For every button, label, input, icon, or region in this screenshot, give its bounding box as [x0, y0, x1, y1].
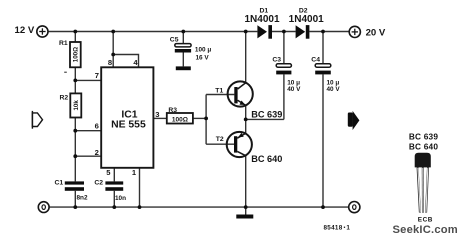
wire C3 top lead from D1/D2 node — [283, 32, 285, 64]
wire bottom rail (0V) — [49, 206, 349, 208]
wire C4 bottom lead to ground rail — [322, 74, 324, 207]
node C5/rail — [181, 30, 185, 34]
wire pin 2 — [75, 155, 101, 157]
output arrow (solid) — [348, 111, 360, 130]
wire R2 bottom lead down to C1 — [74, 118, 76, 182]
node R1/rail — [73, 30, 77, 34]
capacitor C2 — [94, 180, 126, 202]
wire R1 top lead — [74, 32, 76, 43]
node pin2 — [73, 154, 77, 158]
svg-text:40 V: 40 V — [287, 86, 301, 93]
input arrow (open) — [32, 111, 42, 129]
svg-text:R3: R3 — [168, 107, 177, 114]
wire emitter node to C3 — [246, 118, 284, 120]
svg-text:2: 2 — [95, 148, 99, 157]
transistor Q1 : T1 BC639 NPN — [215, 81, 282, 119]
lead E — [418, 167, 420, 212]
svg-text:1: 1 — [346, 224, 350, 231]
node pin4/pin8 joint — [111, 53, 115, 57]
svg-text:T1: T1 — [215, 88, 223, 95]
svg-text:BC 640: BC 640 — [251, 154, 282, 164]
diode D2 1N4001 — [289, 8, 324, 39]
lead C — [422, 167, 424, 212]
svg-text:100Ω: 100Ω — [73, 47, 80, 62]
IC1 NE555 timer box — [95, 58, 160, 177]
wire pin 3 to R3 — [153, 117, 166, 119]
node D2/C4 junction — [321, 30, 325, 34]
svg-text:16 V: 16 V — [196, 54, 210, 61]
wire pin 8 up to rail — [112, 32, 114, 68]
svg-text:T2: T2 — [216, 136, 224, 143]
wire C5 top lead — [182, 32, 184, 44]
ground bar under C5 — [176, 66, 191, 70]
capacitor C5 (electrolytic) — [170, 37, 212, 62]
wire pin 1 to ground rail — [139, 168, 141, 207]
wire top rail segment 3 (D2 cathode to 20V terminal) — [309, 31, 349, 33]
node C1/rail — [73, 205, 77, 209]
svg-text:BC 640: BC 640 — [409, 142, 439, 152]
wire C5 bottom lead to ground bar — [182, 53, 184, 67]
svg-text:100 μ: 100 μ — [195, 47, 211, 54]
svg-text:R1: R1 — [59, 40, 68, 47]
svg-text:1N4001: 1N4001 — [289, 14, 324, 25]
wire T1 base — [206, 94, 234, 96]
diode D1 1N4001 — [244, 8, 279, 39]
svg-text:8n2: 8n2 — [77, 195, 88, 202]
node pin8/rail — [111, 30, 115, 34]
wire pin 7 — [75, 79, 101, 81]
wire base split vertical — [205, 95, 207, 145]
wire C1 bottom lead — [74, 191, 76, 207]
wire top rail segment 1 (12V terminal to D1 anode) — [48, 31, 257, 33]
svg-text:C5: C5 — [170, 37, 179, 44]
wire ground stub below rail at T2 — [245, 207, 247, 214]
node C2/rail — [112, 205, 116, 209]
svg-text:20 V: 20 V — [366, 28, 386, 39]
node C4/rail — [321, 205, 325, 209]
wire R3 to base split node — [193, 117, 206, 119]
svg-text:85418: 85418 — [324, 224, 343, 231]
capacitor C3 (electrolytic) — [272, 56, 301, 93]
node pin6 — [73, 129, 77, 133]
svg-text:7: 7 — [95, 71, 99, 80]
wire C3 bottom lead down — [283, 74, 285, 119]
svg-text:8: 8 — [108, 58, 112, 67]
wire T1 emitter to T2 emitter — [245, 105, 247, 133]
svg-text:40 V: 40 V — [327, 86, 341, 93]
transistor package drawing BC639/BC640 — [409, 131, 439, 223]
svg-text:1N4001: 1N4001 — [244, 14, 279, 25]
wire R1 to R2 through pin7 node — [74, 67, 76, 93]
node emitter junction — [244, 118, 248, 122]
svg-text:NE 555: NE 555 — [111, 120, 146, 131]
node T1 collector/rail — [244, 30, 248, 34]
svg-text:6: 6 — [95, 122, 99, 131]
wire pin 5 to C2 — [113, 168, 115, 182]
resistor R2 — [60, 93, 82, 117]
wire T1 collector up to rail — [245, 32, 247, 83]
svg-text:SeekIC.com: SeekIC.com — [393, 224, 458, 236]
svg-text:C1: C1 — [55, 180, 64, 187]
wire T2 collector down to rail — [245, 156, 247, 208]
wire pin 4 bracket — [113, 55, 138, 68]
svg-text:C4: C4 — [311, 56, 320, 63]
svg-text:R2: R2 — [60, 95, 69, 102]
terminal 20V — [349, 26, 386, 38]
wire top rail segment 2 (D1 cathode to D2 anode) — [272, 31, 296, 33]
capacitor C1 — [55, 180, 88, 202]
terminal 0V left — [38, 202, 49, 213]
node pin1/rail — [138, 205, 142, 209]
node D1-D2 junction — [282, 30, 286, 34]
transistor Q2 : T2 BC640 PNP — [216, 132, 283, 164]
svg-text:B: B — [428, 216, 433, 223]
svg-text:C2: C2 — [94, 180, 103, 187]
svg-text:C3: C3 — [272, 56, 281, 63]
svg-text:BC 639: BC 639 — [409, 131, 439, 141]
svg-text:3: 3 — [155, 110, 159, 119]
svg-text:10n: 10n — [115, 195, 126, 202]
svg-text:12 V: 12 V — [15, 25, 35, 36]
terminal 12V — [15, 25, 48, 37]
terminal 0V right — [349, 202, 360, 213]
wire C2 bottom lead — [113, 191, 115, 207]
svg-text:100Ω: 100Ω — [172, 116, 188, 123]
node R3/base split — [204, 117, 208, 121]
node dots — [73, 30, 325, 209]
ground bar under T2 — [236, 215, 253, 219]
lead B — [426, 167, 428, 212]
node T2 collector/rail — [244, 205, 248, 209]
svg-text:10k: 10k — [73, 100, 80, 111]
wire C4 top lead — [322, 32, 324, 64]
package body — [415, 153, 431, 168]
resistor R1 — [59, 40, 81, 67]
speck artifact left of R1 bottom — [64, 72, 67, 73]
node R1/R2 pin7 — [73, 79, 77, 83]
resistor R3 — [167, 107, 193, 123]
capacitor C4 (electrolytic) — [311, 56, 340, 93]
wire pin 6 — [75, 130, 101, 132]
svg-text:BC 639: BC 639 — [251, 109, 282, 119]
wire T2 base — [206, 143, 234, 145]
